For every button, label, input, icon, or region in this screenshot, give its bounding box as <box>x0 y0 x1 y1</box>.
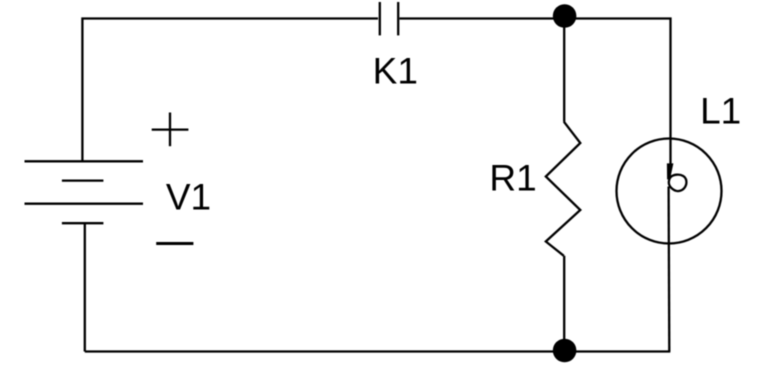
wire lamp bottom to bottom rail <box>667 187 670 352</box>
junction node top <box>553 4 577 28</box>
lamp filament loop <box>669 175 687 191</box>
svg-text:L1: L1 <box>700 90 741 131</box>
lamp L1 circle <box>617 139 722 244</box>
wire top node down to resistor <box>563 16 565 122</box>
battery V1 plate long lower <box>25 203 144 205</box>
svg-text:V1: V1 <box>166 176 211 217</box>
wire bottom rail <box>85 350 671 352</box>
junction node bottom <box>553 339 577 363</box>
switch contact K1 right bar <box>397 2 399 35</box>
battery V1 plate long top <box>25 160 144 162</box>
svg-text:K1: K1 <box>373 51 418 92</box>
wire battery bottom down to bottom rail <box>84 223 86 351</box>
battery V1 plate short upper <box>62 179 104 181</box>
wire resistor bottom to bottom node <box>563 256 565 351</box>
wire top-right from K1 to top-right corner and down to lamp <box>400 19 671 165</box>
minus sign of V1 <box>156 242 193 245</box>
plus sign of V1 <box>152 128 189 130</box>
switch contact K1 left bar <box>379 2 381 35</box>
resistor R1 zigzag <box>546 122 581 256</box>
lamp filament wedge <box>667 164 673 179</box>
svg-text:R1: R1 <box>489 157 536 198</box>
battery V1 plate short bottom <box>62 222 104 224</box>
wire top-left from battery up and across to K1 <box>82 19 378 162</box>
